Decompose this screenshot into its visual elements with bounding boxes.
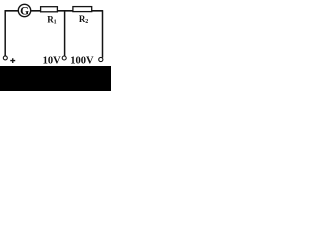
terminal 100V (right) <box>99 57 103 61</box>
wire right vertical <box>102 10 104 57</box>
wire top horizontal from left corner to right corner <box>5 10 103 12</box>
galvanometer G <box>18 4 30 16</box>
wire left vertical <box>4 10 6 56</box>
svg-text:100V: 100V <box>70 56 94 67</box>
resistor R2 <box>73 7 92 12</box>
svg-text:10V: 10V <box>43 56 62 67</box>
label + <box>10 58 15 63</box>
black band at bottom <box>0 66 111 91</box>
wire middle vertical (10V branch) <box>64 10 66 56</box>
terminal 10V (middle) <box>62 56 66 60</box>
svg-text:1: 1 <box>54 19 57 25</box>
terminal + (left) <box>3 56 7 60</box>
svg-text:2: 2 <box>85 19 88 25</box>
svg-text:G: G <box>20 6 29 18</box>
resistor R1 <box>41 7 58 12</box>
